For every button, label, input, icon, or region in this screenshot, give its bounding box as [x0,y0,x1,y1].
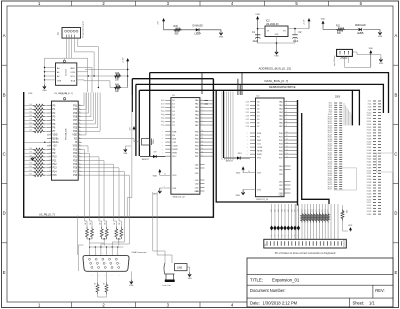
svg-text:D3: D3 [278,234,280,236]
svg-text:XI: XI [75,142,78,144]
resistor R40 10k [114,73,121,81]
svg-text:37: 37 [79,115,81,117]
resistor array RN left of U3 [24,104,47,177]
svg-text:28: 28 [247,109,249,111]
svg-text:PA2: PA2 [195,106,199,109]
svg-text:VDD: VDD [369,48,374,50]
bus ADDRESS_BUS_[0..15] [150,66,389,156]
svg-text:PB7: PB7 [195,156,199,158]
svg-text:P20: P20 [73,160,78,162]
svg-text:38: 38 [79,112,81,114]
svg-text:240: 240 [90,222,92,225]
resistor R11 500 [336,26,345,36]
svg-text:CS1: CS1 [172,142,176,144]
U1 pin rows [163,99,205,158]
LED LED2 DVM-LED [193,26,204,36]
svg-text:240: 240 [104,282,106,285]
svg-text:R40: R40 [115,73,120,75]
IC2 LM2940-33 regulator [258,21,309,44]
VSS right of line out [187,267,192,280]
svg-text:R41: R41 [115,85,120,87]
svg-text:28: 28 [79,148,81,150]
svg-text:PA5: PA5 [279,118,283,121]
svg-text:35: 35 [79,123,81,125]
svg-text:LINE: LINE [177,268,183,270]
U2 lower right pins [279,165,291,195]
svg-text:VDD: VDD [53,135,58,137]
svg-text:29: 29 [163,111,165,113]
svg-text:10k: 10k [29,122,32,124]
svg-text:D4: D4 [246,115,248,117]
VGA left wire [78,245,83,271]
svg-text:D4: D4 [281,234,283,236]
svg-text:10k: 10k [29,170,32,172]
svg-text:11: 11 [286,135,288,137]
svg-text:P10: P10 [53,157,58,159]
svg-text:P30: P30 [73,109,78,111]
svg-text:VGA Connector: VGA Connector [131,251,146,254]
svg-text:C: C [3,152,6,157]
svg-text:E: E [395,270,398,275]
svg-text:VSS: VSS [274,56,279,58]
svg-text:X1-16: X1-16 [367,121,372,123]
svg-text:1/1: 1/1 [369,300,375,305]
svg-text:X1-74: X1-74 [367,205,372,207]
svg-text:+5V: +5V [158,21,160,25]
svg-text:Pin 2 broken to force correct: Pin 2 broken to force correct connection… [275,251,336,255]
+3.3V rail for pullups [121,57,129,87]
left wire to bottom [76,216,78,256]
VSS end of LED row [220,30,222,35]
svg-text:KB4: KB4 [285,209,287,212]
svg-text:32: 32 [247,123,249,125]
svg-text:+3V: +3V [53,146,58,148]
svg-text:D2: D2 [275,234,277,236]
svg-text:PB0: PB0 [195,131,199,133]
svg-text:D7: D7 [246,126,248,128]
svg-text:RSB: RSB [172,131,177,133]
svg-text:R36: R36 [343,210,345,213]
svg-text:10k: 10k [29,130,32,132]
svg-text:R24: R24 [313,209,315,212]
svg-text:U3_PB_[0..7]: U3_PB_[0..7] [39,213,55,217]
svg-text:25: 25 [79,159,81,161]
svg-text:X1-72: X1-72 [367,202,372,204]
connector J1 programming port [57,28,81,39]
svg-text:KB7: KB7 [295,209,297,212]
svg-text:PA3: PA3 [279,111,283,114]
svg-text:10k: 10k [29,166,32,168]
svg-text:10k: 10k [347,210,349,213]
svg-text:CS1: CS1 [257,143,261,145]
svg-text:X1-14: X1-14 [367,118,372,120]
svg-text:CS2B: CS2B [257,147,263,149]
U3 right pin routing upper [82,93,101,132]
svg-text:D2: D2 [246,108,248,110]
svg-text:17: 17 [202,155,204,157]
svg-text:PA1: PA1 [279,104,283,107]
svg-text:16: 16 [202,151,204,153]
svg-text:3B/O: 3B/O [70,68,75,70]
wire RESn [24,142,47,143]
svg-text:D1: D1 [172,104,174,106]
keyboard wire fan from U2 [271,204,338,239]
svg-text:RESB: RESB [257,150,263,152]
svg-text:R26: R26 [319,209,321,212]
svg-text:27: 27 [247,105,249,107]
svg-text:RESB/RGB/WVB/PhE: RESB/RGB/WVB/PhE [269,85,296,89]
svg-text:P28: P28 [73,116,78,118]
svg-text:X1-76: X1-76 [367,208,372,210]
svg-text:27: 27 [163,104,165,106]
svg-text:X1-48: X1-48 [367,167,372,169]
VGA bottom resistors [95,271,109,297]
svg-text:R20: R20 [302,209,304,212]
svg-text:27: 27 [79,152,81,154]
U3 pin rows [47,104,82,177]
svg-text:D0: D0 [172,100,174,102]
svg-text:P19: P19 [73,164,78,166]
svg-text:10k: 10k [29,119,32,121]
svg-text:P12: P12 [53,164,58,166]
svg-text:X1-32: X1-32 [367,144,372,146]
VSS below J2 [380,58,382,62]
svg-text:10k: 10k [29,108,32,110]
title block [247,258,393,307]
svg-text:X1-44: X1-44 [367,162,372,164]
svg-text:KB1: KB1 [275,209,277,212]
svg-text:LED1: LED1 [357,33,363,35]
svg-text:X1-78: X1-78 [367,211,372,213]
svg-text:TITLE:: TITLE: [250,278,263,283]
svg-text:17: 17 [286,156,288,158]
U1 right connections to bus [205,100,213,156]
VDD arrow top right [321,19,336,30]
svg-text:CA2: CA2 [195,167,199,170]
svg-text:VSS: VSS [172,188,177,190]
svg-text:CA1: CA1 [279,165,283,168]
svg-text:12: 12 [286,139,288,141]
svg-text:D9: D9 [298,234,300,236]
svg-text:PB5: PB5 [279,150,283,152]
VGA top pin rail [89,246,123,255]
svg-text:10k: 10k [29,163,32,165]
svg-text:D5: D5 [257,119,259,121]
line out wires from U1 [153,192,172,263]
svg-text:P15: P15 [53,175,58,177]
svg-text:X1-42: X1-42 [367,159,372,161]
svg-text:14: 14 [202,144,204,146]
svg-text:10uF: 10uF [253,41,259,43]
svg-text:26: 26 [247,102,249,104]
svg-text:D3: D3 [257,112,259,114]
svg-text:RESn: RESn [53,142,60,144]
svg-text:10k: 10k [29,111,32,113]
svg-text:X1-34: X1-34 [367,147,372,149]
svg-text:KB2: KB2 [278,209,280,212]
svg-text:Programming port: Programming port [82,21,85,38]
svg-text:2000: 2000 [335,97,341,99]
U2 pin rows [247,100,297,159]
svg-text:DVM-LED: DVM-LED [193,26,204,28]
svg-text:P21: P21 [73,157,78,159]
svg-text:33: 33 [79,130,81,132]
svg-text:30: 30 [247,116,249,118]
svg-text:X1-80: X1-80 [367,214,372,216]
svg-text:36: 36 [79,119,81,121]
VSS left of resistor array [32,157,34,160]
svg-text:Date:: Date: [250,300,260,305]
VSS left of U1 [152,186,171,195]
svg-text:240: 240 [105,222,107,225]
svg-text:CB1: CB1 [195,180,199,182]
svg-text:+3.3V: +3.3V [304,19,306,25]
svg-text:B: B [395,92,398,97]
VDD arrow right of J2 [369,48,374,67]
svg-text:+3.3V: +3.3V [123,57,125,63]
svg-text:26: 26 [79,156,81,158]
capacitor C1 10uF [252,32,260,43]
VSS below crystal [124,149,126,152]
svg-text:P24: P24 [73,131,78,133]
svg-text:X1-30: X1-30 [367,141,372,143]
svg-text:10k: 10k [29,126,32,128]
svg-text:D1: D1 [271,234,273,236]
svg-text:24LC512: 24LC512 [66,69,68,76]
svg-text:D1: D1 [257,105,259,107]
svg-text:X1-50: X1-50 [367,170,372,172]
keyboard connector J3 [264,239,347,248]
svg-text:DATA_BUS_[0..7]: DATA_BUS_[0..7] [265,79,289,83]
net label column X1 [367,101,381,216]
svg-text:VSS: VSS [42,90,47,92]
svg-text:X1-38: X1-38 [367,153,372,155]
svg-text:240: 240 [119,222,121,225]
svg-text:X1-62: X1-62 [367,188,372,190]
svg-text:ADDRESS_BUS_[0..15]: ADDRESS_BUS_[0..15] [259,66,292,70]
svg-text:16: 16 [286,153,288,155]
svg-text:R23: R23 [310,209,312,212]
svg-text:DMM-LED: DMM-LED [355,25,366,27]
svg-text:10k: 10k [29,115,32,117]
svg-text:U3_PA_[0..7]: U3_PA_[0..7] [54,92,67,95]
svg-text:240: 240 [85,222,87,225]
svg-text:P18: P18 [73,168,78,170]
capacitor C2 10uF [292,28,302,43]
bus segment to U1/U2 (y=78.7) [132,79,213,112]
svg-text:P23: P23 [73,149,78,151]
svg-text:X1-22: X1-22 [367,130,372,132]
resistor R41 10k [114,85,121,93]
svg-text:D2: D2 [172,107,174,109]
svg-text:D6: D6 [288,234,290,236]
keyboard pullup resistors [301,213,330,223]
svg-text:PB5: PB5 [195,149,199,151]
svg-text:X1-8: X1-8 [368,109,372,111]
svg-text:X1-12: X1-12 [367,115,372,117]
svg-text:VDD: VDD [348,225,353,227]
svg-text:PB3: PB3 [279,143,283,145]
bus vertical taps right [351,90,353,125]
svg-text:10k: 10k [29,152,32,154]
svg-text:13: 13 [202,141,204,143]
svg-text:VDD: VDD [255,14,260,16]
svg-text:240: 240 [100,222,102,225]
svg-text:PA3: PA3 [195,110,199,113]
svg-text:BCA: BCA [71,80,76,83]
svg-text:D: D [3,211,6,216]
IC U1 W65C22_02 [171,95,200,198]
svg-text:CB1: CB1 [279,189,283,191]
svg-text:VSS: VSS [219,36,224,38]
svg-text:CB1: CB1 [195,187,199,189]
svg-text:11: 11 [202,134,204,136]
svg-text:PB6: PB6 [195,152,199,154]
bus tap to keyboard [216,90,329,205]
svg-text:E: E [3,270,6,275]
svg-text:KB5: KB5 [288,209,290,212]
svg-text:240: 240 [114,222,116,225]
U3 misc right wires [82,93,89,153]
svg-text:30: 30 [79,141,81,143]
svg-text:R27: R27 [322,209,324,212]
svg-text:PB0: PB0 [279,133,283,135]
svg-text:R21: R21 [305,209,307,212]
IC U3 P8X32A-D40 [52,98,79,181]
svg-text:VSS: VSS [28,93,33,95]
svg-text:PhI2: PhI2 [172,156,176,158]
svg-text:33: 33 [163,125,165,127]
svg-text:D5: D5 [172,118,174,120]
svg-text:10: 10 [202,130,204,132]
svg-text:28: 28 [163,107,165,109]
svg-text:VSS: VSS [378,36,383,38]
svg-text:P29: P29 [73,113,78,115]
svg-text:240: 240 [95,282,97,285]
svg-text:PB2: PB2 [195,138,199,140]
wire EEPROM column down [91,69,93,92]
svg-text:CSB: CSB [279,195,284,197]
svg-text:CB1: CB1 [195,173,199,175]
svg-text:X1-24: X1-24 [367,133,372,135]
wires to pullups [84,69,128,88]
svg-text:CB2: CB2 [195,183,199,185]
svg-text:KB0: KB0 [271,209,273,212]
svg-text:X1-64: X1-64 [367,191,372,193]
svg-text:VDD: VDD [321,19,326,21]
svg-text:Sheet:: Sheet: [353,300,365,305]
svg-text:VSS: VSS [188,278,193,280]
U1 top bus taps [202,73,208,104]
VDD near keyboard [350,229,352,232]
VSS below VGA [129,271,134,287]
svg-text:+5VDC: +5VDC [340,58,348,60]
svg-text:X1-40: X1-40 [367,156,372,158]
+3.3V output arrow [304,18,311,29]
svg-text:B: B [3,92,6,97]
svg-text:REV:: REV: [375,288,384,293]
svg-text:VDD: VDD [257,172,262,174]
connector J2 input power [333,49,352,66]
svg-text:PB2: PB2 [279,140,283,142]
svg-text:PA2: PA2 [279,108,283,111]
svg-text:D7: D7 [291,234,293,236]
svg-text:P31: P31 [73,106,78,108]
wires from staircase to VGA resistors [103,217,127,220]
svg-text:Input Power: Input Power [333,55,336,66]
svg-text:30: 30 [163,114,165,116]
+5V above crystal [133,128,135,131]
diode row (broken pin diamonds) [270,226,300,237]
svg-text:LM-2940-33: LM-2940-33 [266,24,279,26]
VSS left of U2 [236,190,256,197]
svg-text:10: 10 [286,132,288,134]
svg-text:RESB: RESB [172,149,178,151]
svg-text:KB6: KB6 [291,209,293,212]
svg-text:VSS: VSS [379,63,384,65]
U3 right pin routing lower staircase [82,150,130,247]
svg-text:VSS: VSS [129,285,134,287]
svg-text:CA1: CA1 [195,163,199,166]
svg-text:Expansion_01: Expansion_01 [272,278,300,283]
svg-text:10uF: 10uF [293,41,299,43]
svg-text:PA1: PA1 [195,103,199,106]
svg-text:PhI: PhI [172,135,175,137]
svg-text:D0: D0 [246,101,248,103]
+5V arrow top middle [158,18,222,30]
svg-text:X1-2: X1-2 [368,101,372,103]
connector box around X0 lower rows [334,168,356,190]
net label column X0 [328,103,343,191]
svg-text:VSS: VSS [73,146,78,148]
svg-text:D5: D5 [246,119,248,121]
svg-text:X1-52: X1-52 [367,173,372,175]
crystal X1 5MHz [82,139,156,146]
diode D10 1N5817 [224,153,250,163]
U2 net labels left [246,101,248,159]
svg-text:P14: P14 [53,171,58,173]
diode D9 1N5817 [140,151,165,161]
svg-text:D6: D6 [257,123,259,125]
regulator ground rail [258,42,295,50]
U5 right pin wires [77,68,92,80]
svg-text:C: C [394,152,397,157]
svg-text:PA6: PA6 [195,120,199,123]
svg-text:CB1: CB1 [279,174,283,176]
gray wires right of U3 to VGA [127,95,132,218]
svg-text:PA7: PA7 [279,125,283,128]
svg-text:40: 40 [79,104,81,106]
VSS below regulator [276,50,278,54]
resistor R46 500 [174,26,182,36]
svg-text:PB1: PB1 [195,135,199,137]
svg-text:P22: P22 [73,153,78,155]
svg-text:D: D [394,211,397,216]
svg-text:PhI: PhI [257,136,260,138]
svg-text:22: 22 [79,170,81,172]
svg-text:CB2: CB2 [279,185,283,187]
svg-text:VDD: VDD [172,175,177,177]
bus U3_PA / U3_PB loop [24,79,214,218]
svg-text:31: 31 [247,119,249,121]
svg-text:VSS: VSS [57,81,62,83]
svg-text:D3: D3 [246,112,248,114]
wire box around U5 [45,58,88,92]
svg-text:X1-6: X1-6 [368,107,372,109]
svg-text:D7: D7 [172,125,174,127]
svg-text:26: 26 [163,100,165,102]
svg-text:D8: D8 [295,234,297,236]
